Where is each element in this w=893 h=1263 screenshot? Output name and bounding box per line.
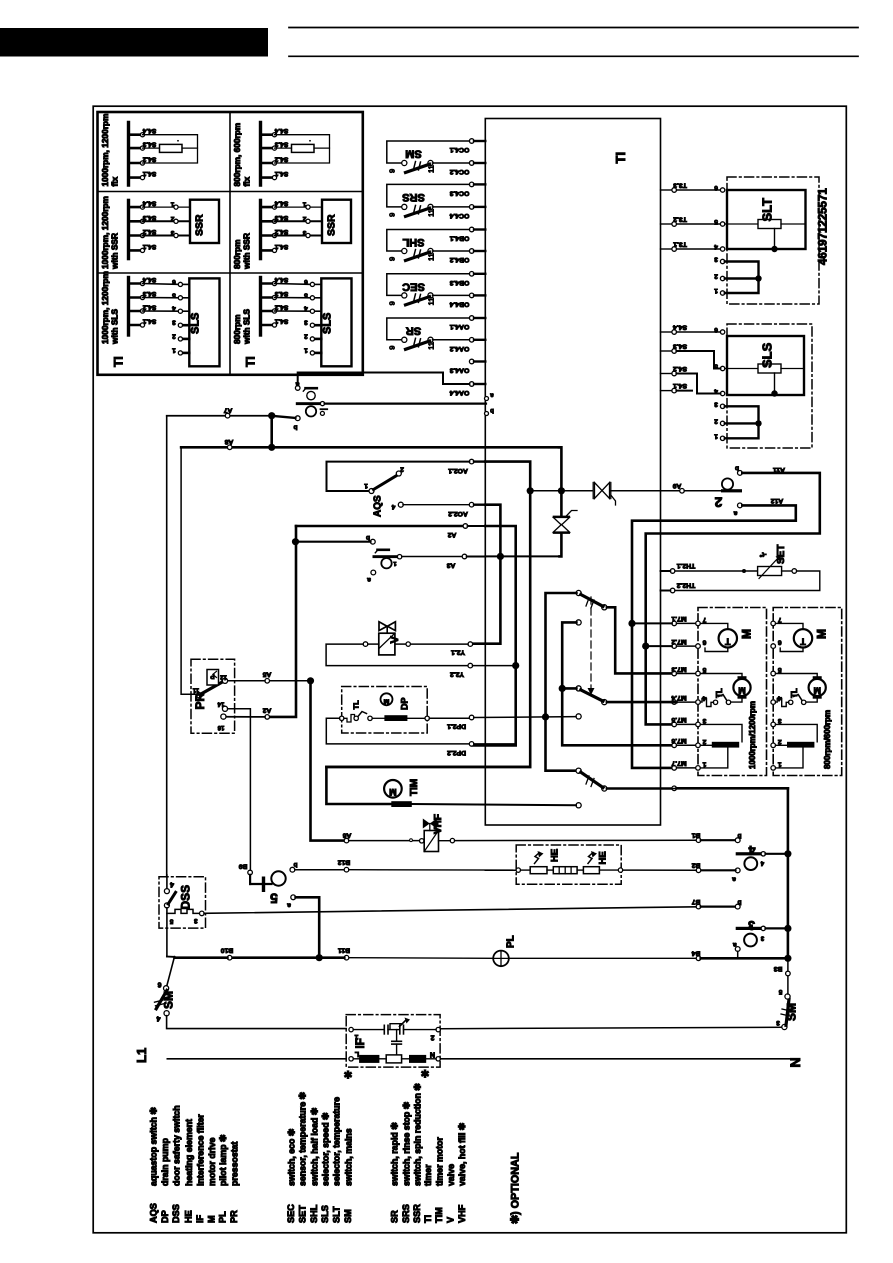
- svg-text:S4.1: S4.1: [274, 318, 288, 325]
- svg-text:M: M: [383, 697, 389, 704]
- svg-text:SHL: SHL: [309, 1204, 319, 1223]
- svg-text:2: 2: [702, 738, 706, 745]
- svg-text:3: 3: [170, 229, 174, 236]
- svg-text:DP2.1: DP2.1: [447, 723, 466, 730]
- svg-text:3: 3: [778, 717, 782, 724]
- svg-text:b: b: [737, 832, 741, 839]
- svg-text:S4.2: S4.2: [274, 156, 288, 163]
- svg-text:SEC: SEC: [402, 280, 425, 292]
- svg-text:DSS: DSS: [179, 885, 193, 910]
- svg-text:6: 6: [702, 639, 706, 646]
- svg-text:PL: PL: [218, 1211, 228, 1223]
- svg-text:AQS: AQS: [148, 1203, 158, 1223]
- svg-text:TH2.1: TH2.1: [677, 562, 696, 569]
- svg-text:SSR: SSR: [194, 214, 206, 236]
- svg-text:switch, mains: switch, mains: [343, 1128, 353, 1186]
- svg-text:DP2.2: DP2.2: [447, 749, 466, 756]
- svg-text:interference filter: interference filter: [195, 1114, 205, 1186]
- svg-text:2: 2: [714, 495, 722, 511]
- svg-text:aquastop switch ✱: aquastop switch ✱: [149, 1107, 159, 1186]
- svg-text:461971225571: 461971225571: [818, 188, 830, 265]
- svg-text:L: L: [354, 1050, 359, 1057]
- svg-text:SHL: SHL: [402, 236, 424, 248]
- svg-text:3: 3: [304, 319, 308, 326]
- svg-text:T: T: [725, 636, 731, 646]
- svg-text:SLT: SLT: [760, 198, 775, 222]
- svg-text:SM: SM: [785, 1003, 799, 1021]
- svg-text:3: 3: [302, 229, 306, 236]
- svg-text:4: 4: [391, 503, 395, 510]
- svg-text:OB4.2: OB4.2: [449, 256, 469, 263]
- svg-text:B12: B12: [338, 859, 351, 866]
- svg-text:switch, rapid ✱: switch, rapid ✱: [390, 1122, 400, 1186]
- svg-text:b: b: [293, 861, 297, 868]
- svg-text:b: b: [490, 407, 494, 413]
- svg-text:A9: A9: [672, 482, 681, 489]
- svg-text:11: 11: [427, 253, 436, 261]
- svg-text:B11: B11: [338, 947, 350, 954]
- svg-text:4: 4: [748, 843, 755, 857]
- svg-text:11: 11: [427, 165, 436, 173]
- svg-text:TIM: TIM: [409, 779, 420, 796]
- svg-text:S4.2: S4.2: [673, 365, 687, 372]
- svg-text:sensor, temperature ✱: sensor, temperature ✱: [298, 1091, 308, 1186]
- svg-text:M: M: [389, 787, 397, 797]
- svg-text:M: M: [738, 686, 746, 696]
- svg-text:S4.1: S4.1: [673, 382, 687, 389]
- svg-text:SRS: SRS: [402, 191, 425, 203]
- svg-text:11: 11: [427, 298, 436, 306]
- svg-text:a: a: [732, 876, 736, 883]
- svg-text:with SLS: with SLS: [110, 309, 120, 345]
- svg-text:A2: A2: [447, 531, 456, 538]
- svg-text:12: 12: [220, 674, 227, 680]
- svg-text:2: 2: [302, 215, 306, 222]
- svg-text:VHF: VHF: [457, 1204, 467, 1223]
- svg-text:B10: B10: [221, 947, 234, 954]
- svg-text:800rpm/600rpm: 800rpm/600rpm: [823, 710, 832, 769]
- svg-text:1: 1: [170, 201, 174, 208]
- svg-text:11: 11: [192, 687, 199, 693]
- svg-text:9: 9: [388, 213, 397, 217]
- svg-text:B4: B4: [691, 950, 700, 957]
- svg-text:S4.2: S4.2: [274, 228, 288, 235]
- svg-text:heating element: heating element: [184, 1119, 194, 1186]
- svg-text:2: 2: [170, 215, 174, 222]
- svg-text:with SSR: with SSR: [242, 233, 252, 270]
- svg-text:2: 2: [714, 417, 718, 424]
- svg-text:S4.4: S4.4: [142, 276, 156, 283]
- svg-text:4: 4: [156, 1015, 160, 1022]
- svg-text:V: V: [389, 636, 401, 644]
- svg-text:PR: PR: [193, 692, 207, 709]
- svg-text:DP: DP: [400, 697, 410, 710]
- svg-text:A7: A7: [223, 407, 232, 414]
- svg-text:5: 5: [778, 666, 782, 673]
- svg-text:DP: DP: [160, 1210, 170, 1223]
- svg-text:SLS: SLS: [189, 313, 201, 334]
- svg-text:switch, spin reduction ✱: switch, spin reduction ✱: [413, 1083, 423, 1186]
- svg-text:9: 9: [388, 301, 397, 305]
- svg-text:B2: B2: [691, 862, 700, 869]
- svg-text:S4.4: S4.4: [274, 200, 288, 207]
- svg-text:14: 14: [217, 701, 224, 707]
- svg-text:V: V: [446, 1216, 456, 1223]
- svg-text:A8: A8: [224, 438, 233, 445]
- svg-text:2: 2: [172, 332, 176, 339]
- svg-text:DSS: DSS: [171, 1204, 181, 1223]
- svg-text:a: a: [295, 381, 299, 388]
- svg-text:M: M: [813, 686, 821, 696]
- svg-text:SEC: SEC: [286, 1204, 296, 1223]
- svg-text:IF: IF: [355, 1038, 367, 1048]
- svg-text:6: 6: [157, 981, 161, 988]
- svg-text:9: 9: [388, 169, 397, 173]
- svg-text:800rpm, 600rpm: 800rpm, 600rpm: [232, 123, 242, 187]
- svg-text:M: M: [740, 629, 754, 639]
- svg-text:3: 3: [714, 400, 718, 407]
- svg-text:M: M: [815, 629, 829, 639]
- svg-text:AO2.2: AO2.2: [448, 510, 468, 517]
- svg-text:OC4.3: OC4.3: [449, 189, 469, 196]
- svg-text:S4.4: S4.4: [274, 276, 288, 283]
- svg-text:OC4.4: OC4.4: [449, 212, 469, 219]
- svg-text:OA4.3: OA4.3: [449, 367, 469, 374]
- svg-text:S4.3: S4.3: [274, 141, 288, 148]
- svg-text:M7.7: M7.7: [671, 760, 686, 767]
- svg-text:SET: SET: [297, 1205, 307, 1223]
- svg-text:N: N: [787, 1057, 803, 1067]
- svg-text:with SLS: with SLS: [242, 309, 252, 345]
- svg-text:door saferty switch: door saferty switch: [171, 1105, 181, 1186]
- svg-text:3: 3: [748, 918, 755, 932]
- svg-text:T3.1: T3.1: [673, 241, 687, 248]
- svg-text:6: 6: [304, 278, 308, 285]
- svg-text:2: 2: [714, 273, 718, 280]
- svg-text:OC4.2: OC4.2: [449, 168, 469, 175]
- svg-text:S4.3: S4.3: [142, 214, 156, 221]
- svg-text:S4.1: S4.1: [142, 243, 156, 250]
- svg-text:S4.4: S4.4: [142, 127, 156, 134]
- svg-text:-t°: -t°: [759, 551, 766, 559]
- svg-text:S4.3: S4.3: [142, 290, 156, 297]
- svg-text:4: 4: [172, 305, 176, 312]
- svg-text:TL: TL: [790, 688, 799, 698]
- svg-text:1000rpm, 1200rpm: 1000rpm, 1200rpm: [100, 271, 110, 344]
- svg-text:OA4.4: OA4.4: [449, 389, 469, 396]
- svg-text:motor drive: motor drive: [207, 1138, 217, 1186]
- svg-text:5: 5: [304, 291, 308, 298]
- svg-text:S4.4: S4.4: [274, 127, 288, 134]
- svg-text:5: 5: [169, 918, 173, 925]
- svg-text:SSR: SSR: [326, 214, 338, 236]
- svg-text:TI: TI: [112, 356, 126, 367]
- svg-text:3: 3: [194, 917, 198, 924]
- svg-text:4: 4: [170, 881, 174, 888]
- svg-text:B1: B1: [691, 832, 700, 839]
- svg-text:A12: A12: [771, 497, 784, 504]
- svg-text:3: 3: [714, 256, 718, 263]
- svg-text:9: 9: [388, 257, 397, 261]
- svg-text:SR: SR: [389, 1210, 399, 1223]
- svg-text:M7.5: M7.5: [671, 716, 686, 723]
- svg-text:b: b: [735, 465, 739, 472]
- svg-text:✱: ✱: [421, 1069, 430, 1081]
- svg-text:AQS: AQS: [373, 495, 384, 517]
- svg-text:S4.3: S4.3: [274, 214, 288, 221]
- svg-text:4: 4: [714, 243, 718, 250]
- svg-text:TIM: TIM: [434, 1207, 444, 1223]
- svg-text:S4.2: S4.2: [274, 304, 288, 311]
- svg-text:S4.1: S4.1: [142, 170, 156, 177]
- svg-text:a: a: [733, 510, 737, 517]
- svg-text:M7.3: M7.3: [671, 665, 686, 672]
- svg-text:S4.3: S4.3: [142, 141, 156, 148]
- svg-text:selector, speed ✱: selector, speed ✱: [321, 1112, 331, 1186]
- svg-text:PL: PL: [506, 935, 517, 948]
- svg-text:1: 1: [393, 560, 396, 566]
- svg-text:OA4.1: OA4.1: [449, 323, 469, 330]
- svg-text:S4.2: S4.2: [142, 228, 156, 235]
- svg-text:PR: PR: [229, 1210, 239, 1223]
- svg-text:with SSR: with SSR: [110, 233, 120, 270]
- svg-text:TH2.2: TH2.2: [677, 582, 696, 589]
- svg-text:2: 2: [304, 332, 308, 339]
- svg-text:A6: A6: [342, 832, 351, 839]
- svg-text:valve: valve: [446, 1164, 456, 1186]
- svg-text:M7.2: M7.2: [671, 638, 686, 645]
- svg-text:switch, half load ✱: switch, half load ✱: [309, 1107, 319, 1186]
- svg-text:TL: TL: [352, 700, 361, 710]
- svg-text:800rpm: 800rpm: [232, 239, 242, 269]
- svg-text:2: 2: [430, 1034, 434, 1041]
- svg-text:IF: IF: [195, 1214, 205, 1223]
- svg-text:7: 7: [702, 616, 706, 623]
- svg-text:800rpm: 800rpm: [232, 314, 242, 344]
- svg-text:5: 5: [270, 891, 278, 907]
- svg-text:SM: SM: [343, 1209, 353, 1223]
- svg-text:11: 11: [427, 209, 436, 217]
- svg-text:OA4.2: OA4.2: [449, 345, 469, 352]
- svg-text:1: 1: [302, 201, 306, 208]
- svg-text:S4.2: S4.2: [142, 156, 156, 163]
- svg-text:TI: TI: [613, 152, 628, 164]
- svg-text:B9: B9: [238, 863, 247, 870]
- svg-text:S4.3: S4.3: [673, 343, 687, 350]
- svg-text:6: 6: [172, 278, 176, 285]
- svg-text:TL: TL: [715, 688, 724, 698]
- svg-text:5: 5: [172, 291, 176, 298]
- svg-text:4: 4: [304, 305, 308, 312]
- svg-text:2: 2: [400, 466, 404, 473]
- svg-text:1000rpm/1200rpm: 1000rpm/1200rpm: [748, 701, 757, 769]
- svg-text:pilot lamp ✱: pilot lamp ✱: [218, 1134, 228, 1186]
- svg-text:T3.2: T3.2: [673, 216, 687, 223]
- svg-text:valve, hot fill ✱: valve, hot fill ✱: [457, 1122, 467, 1186]
- svg-text:S4.4: S4.4: [142, 200, 156, 207]
- svg-text:11: 11: [427, 342, 436, 350]
- svg-text:switch, eco ✱: switch, eco ✱: [287, 1128, 297, 1186]
- svg-text:S4.1: S4.1: [274, 243, 288, 250]
- svg-text:fix: fix: [242, 176, 252, 186]
- svg-text:OB4.1: OB4.1: [449, 235, 469, 242]
- svg-text:1: 1: [304, 346, 308, 353]
- svg-text:SM: SM: [162, 991, 176, 1009]
- svg-text:N: N: [430, 1051, 435, 1058]
- svg-text:5: 5: [702, 666, 706, 673]
- svg-text:6: 6: [778, 639, 782, 646]
- svg-text:TI: TI: [244, 356, 258, 367]
- svg-text:a: a: [367, 576, 371, 583]
- svg-text:7: 7: [778, 616, 782, 623]
- svg-text:SR: SR: [406, 325, 421, 337]
- svg-text:SLS: SLS: [760, 342, 775, 368]
- svg-text:Y2.1: Y2.1: [451, 649, 465, 656]
- svg-text:1: 1: [172, 346, 176, 353]
- svg-text:pressostat: pressostat: [229, 1141, 239, 1186]
- svg-text:6: 6: [714, 184, 718, 191]
- svg-text:✱: ✱: [344, 1070, 353, 1082]
- svg-text:3: 3: [776, 1019, 780, 1026]
- svg-text:A3: A3: [446, 561, 455, 568]
- svg-text:3: 3: [172, 319, 176, 326]
- svg-text:SLT: SLT: [331, 1206, 341, 1223]
- svg-text:1: 1: [778, 760, 782, 767]
- svg-text:16: 16: [217, 724, 224, 730]
- svg-text:SSR: SSR: [412, 1204, 422, 1223]
- svg-text:Y2.2: Y2.2: [450, 670, 464, 677]
- svg-text:B7: B7: [691, 898, 700, 905]
- svg-text:1: 1: [714, 287, 718, 294]
- svg-text:2: 2: [778, 738, 782, 745]
- svg-text:1: 1: [702, 760, 706, 767]
- svg-text:SET: SET: [776, 545, 787, 564]
- svg-text:SRS: SRS: [401, 1204, 411, 1223]
- svg-text:S4.1: S4.1: [142, 318, 156, 325]
- svg-text:T: T: [800, 636, 806, 646]
- svg-text:3: 3: [702, 717, 706, 724]
- svg-text:HE: HE: [550, 849, 561, 862]
- svg-text:selector, temperature: selector, temperature: [332, 1097, 342, 1186]
- svg-text:A5: A5: [262, 671, 271, 678]
- svg-text:S4.1: S4.1: [274, 170, 288, 177]
- svg-text:b: b: [366, 534, 370, 541]
- svg-text:timer: timer: [423, 1164, 433, 1186]
- svg-text:SLS: SLS: [320, 1205, 330, 1223]
- svg-text:HE: HE: [598, 851, 609, 864]
- svg-text:S4.2: S4.2: [142, 304, 156, 311]
- svg-text:B3: B3: [773, 965, 782, 972]
- svg-text:S4.4: S4.4: [673, 324, 687, 331]
- svg-text:HE: HE: [184, 1210, 194, 1223]
- svg-text:✱) OPTIONAL: ✱) OPTIONAL: [510, 1152, 522, 1224]
- svg-text:T3.3: T3.3: [673, 182, 687, 189]
- svg-text:S4.3: S4.3: [274, 290, 288, 297]
- svg-text:1000rpm, 1200rpm: 1000rpm, 1200rpm: [100, 196, 110, 269]
- svg-text:1000rpm, 1200rpm: 1000rpm, 1200rpm: [100, 114, 110, 187]
- svg-text:M7.6: M7.6: [671, 737, 686, 744]
- svg-text:M7.4: M7.4: [671, 694, 686, 701]
- svg-text:drain pump: drain pump: [160, 1137, 170, 1186]
- svg-text:A2: A2: [262, 707, 271, 714]
- svg-text:a: a: [287, 902, 291, 909]
- svg-text:OB4.4: OB4.4: [449, 300, 469, 307]
- svg-text:timer motor: timer motor: [434, 1137, 444, 1186]
- svg-text:TI: TI: [423, 1215, 433, 1223]
- svg-text:b: b: [293, 424, 297, 431]
- svg-text:M: M: [207, 1215, 217, 1223]
- svg-text:VHF: VHF: [433, 814, 444, 834]
- svg-text:fix: fix: [110, 176, 120, 186]
- svg-text:5: 5: [778, 988, 782, 995]
- svg-text:b: b: [737, 898, 741, 905]
- svg-text:AO2.1: AO2.1: [448, 467, 468, 474]
- svg-text:OC4.1: OC4.1: [449, 146, 469, 153]
- svg-text:5: 5: [714, 218, 718, 225]
- svg-text:SLS: SLS: [321, 313, 333, 334]
- svg-text:1: 1: [364, 482, 368, 489]
- svg-text:L1: L1: [134, 1048, 149, 1063]
- svg-text:SM: SM: [405, 148, 422, 160]
- svg-text:9: 9: [388, 346, 397, 350]
- svg-text:M7.1: M7.1: [671, 615, 686, 622]
- svg-text:1: 1: [714, 432, 718, 439]
- svg-text:OB4.3: OB4.3: [449, 279, 469, 286]
- svg-text:switch, rinse stop ✱: switch, rinse stop ✱: [401, 1101, 411, 1186]
